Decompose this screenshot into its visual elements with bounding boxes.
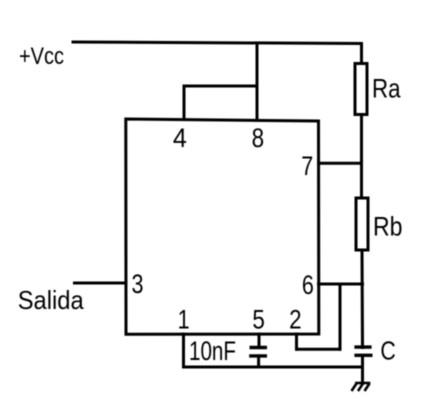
svg-text:+Vcc: +Vcc bbox=[19, 43, 64, 70]
wire Rb to C bbox=[361, 250, 365, 348]
resistor Rb bbox=[356, 198, 368, 250]
ground bbox=[352, 383, 371, 391]
svg-text:3: 3 bbox=[132, 269, 144, 299]
wire 10nF cap lower stub bbox=[257, 356, 260, 367]
wire pin 8 to Vcc rail bbox=[256, 43, 259, 120]
wire pin 1 down bbox=[182, 334, 185, 367]
svg-text:Rb: Rb bbox=[373, 212, 403, 242]
wire pin 4 jumper horizontal bbox=[184, 85, 257, 88]
wire C lower stub to ground bbox=[361, 356, 364, 383]
capacitor C3 10nF plates bbox=[249, 348, 267, 356]
wire Ra to Rb bbox=[360, 115, 363, 199]
wire +Vcc top rail bbox=[73, 42, 362, 44]
wire pin 6 to right column bbox=[319, 283, 363, 286]
wire pin 7 to Ra/Rb junction bbox=[319, 162, 362, 165]
wire pin 2 up to pin 6 bbox=[339, 284, 342, 349]
svg-text:7: 7 bbox=[301, 151, 313, 181]
wire pin 2 stub down bbox=[295, 334, 298, 349]
svg-text:2: 2 bbox=[289, 305, 302, 335]
svg-text:1: 1 bbox=[178, 305, 190, 335]
svg-text:Salida: Salida bbox=[18, 285, 84, 315]
wire ground rail bottom bbox=[184, 366, 363, 369]
wire pin 5 stub bbox=[258, 334, 261, 348]
svg-text:5: 5 bbox=[252, 305, 265, 335]
wire Vcc rail down to Ra bbox=[360, 44, 363, 65]
wire pin 4 vertical bbox=[183, 86, 186, 120]
svg-text:C: C bbox=[380, 336, 395, 366]
svg-text:Ra: Ra bbox=[372, 74, 401, 104]
IC U1 555 body bbox=[126, 119, 319, 334]
wire Salida to pin 3 bbox=[75, 282, 126, 285]
svg-text:6: 6 bbox=[302, 270, 314, 300]
capacitor C plates bbox=[354, 347, 372, 355]
svg-text:8: 8 bbox=[252, 123, 265, 153]
svg-text:4: 4 bbox=[173, 123, 187, 153]
svg-text:10nF: 10nF bbox=[189, 336, 236, 366]
resistor Ra bbox=[355, 64, 367, 115]
wire pin 2 horizontal bbox=[297, 348, 341, 351]
